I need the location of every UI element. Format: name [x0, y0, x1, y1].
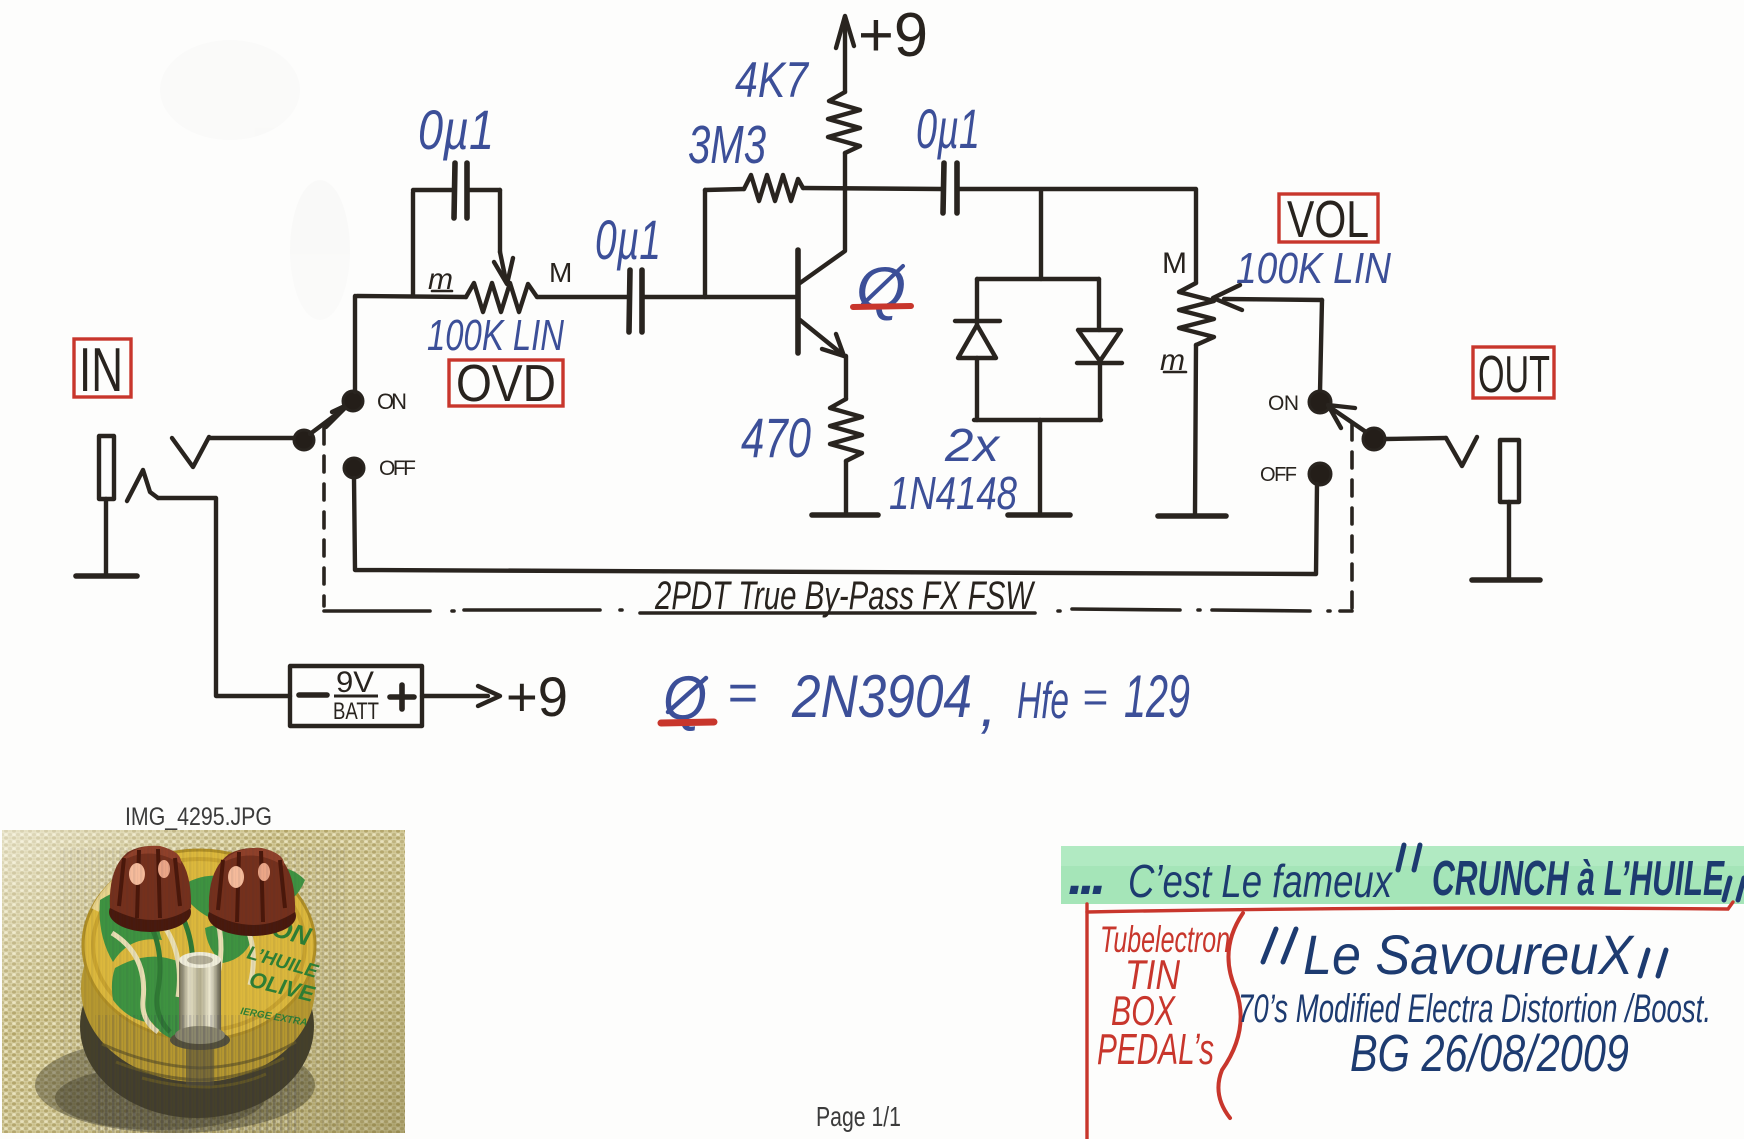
ground (emitter) — [812, 512, 878, 518]
svg-text:M: M — [549, 257, 572, 288]
svg-text:2N3904: 2N3904 — [791, 663, 972, 730]
switch SW1 lever — [310, 407, 346, 434]
footswitch cylinder — [170, 952, 230, 1086]
svg-text:PEDAL’s: PEDAL’s — [1097, 1025, 1214, 1074]
headline ...C'est Le fameux "CRUNCH a L'HUILE" — [1068, 843, 1744, 907]
switch SW1 OFF node — [344, 458, 364, 478]
wire jack to ground — [104, 499, 108, 574]
diode pair bottom wire — [974, 418, 1101, 422]
tin side text scribbles — [102, 1042, 296, 1087]
node junction to diodes — [1039, 191, 1043, 279]
svg-text:129: 129 — [1124, 663, 1190, 730]
knob right — [208, 848, 296, 936]
red brace — [1218, 913, 1243, 1118]
ground (diodes) — [1008, 512, 1070, 518]
bypass wire OFF-OFF — [354, 478, 1317, 574]
mechanical link dashed (OUT) — [1350, 424, 1354, 610]
svg-text:IN: IN — [79, 336, 123, 405]
green highlighter bar — [1061, 846, 1744, 904]
svg-text:3M3: 3M3 — [688, 115, 766, 175]
wire input row to pot — [357, 296, 466, 297]
wire OUT jack to ground — [1507, 502, 1511, 578]
+9 supply arrow — [836, 16, 854, 92]
svg-text:100K LIN: 100K LIN — [1236, 244, 1391, 293]
svg-text:,: , — [980, 672, 997, 739]
svg-text:Page 1/1: Page 1/1 — [816, 1101, 901, 1132]
svg-text:OFF: OFF — [379, 457, 416, 480]
svg-text:BG 26/08/2009: BG 26/08/2009 — [1350, 1025, 1629, 1083]
photo of tin box pedal — [2, 830, 405, 1133]
svg-text:2PDT True By-Pass FX FSW: 2PDT True By-Pass FX FSW — [654, 574, 1035, 618]
svg-text:0µ1: 0µ1 — [418, 98, 494, 161]
svg-text:2x: 2x — [944, 419, 1001, 471]
tin side label band — [81, 894, 315, 1082]
OVD red box — [449, 360, 563, 406]
svg-text:CRUNCH à L’HUILE: CRUNCH à L’HUILE — [1432, 852, 1725, 906]
resistor R2 3M3 — [744, 175, 803, 201]
svg-text:OVD: OVD — [456, 355, 556, 413]
resistor R1 4K7 — [828, 92, 860, 153]
OUT red box — [1473, 347, 1554, 398]
potentiometer VOL element — [1179, 283, 1214, 345]
knob left — [109, 846, 191, 932]
svg-text:470: 470 — [741, 406, 811, 469]
diode D1 1N4148 (cathode up) — [955, 279, 1000, 420]
IN jack sleeve spring — [127, 470, 158, 501]
switch SW2 pivot node — [1363, 428, 1385, 450]
wire ON node up to input row — [353, 296, 357, 392]
svg-text:BATT: BATT — [333, 698, 379, 725]
wire 3M3 left leg down to base — [703, 190, 707, 297]
svg-text:9V: 9V — [336, 666, 374, 699]
svg-text:...: ... — [1068, 843, 1103, 906]
capacitor C1 0u1 (input bypass over OVD pot) — [413, 163, 500, 296]
svg-text:VOL: VOL — [1287, 191, 1369, 249]
wire C2 to base — [644, 295, 797, 299]
switch SW2 OFF node — [1309, 463, 1331, 485]
green artwork on tin — [100, 867, 305, 1040]
svg-text:IMG_4295.JPG: IMG_4295.JPG — [125, 803, 272, 831]
svg-text:+9: +9 — [506, 665, 568, 728]
svg-text:100K LIN: 100K LIN — [427, 311, 564, 360]
green tin lettering — [239, 907, 321, 1029]
label Q (transistor) — [853, 255, 911, 322]
red brand text — [1097, 919, 1230, 1074]
battery B1 9V — [290, 666, 422, 726]
svg-text:=: = — [1082, 673, 1108, 722]
svg-text:Hfe: Hfe — [1017, 672, 1069, 730]
tin lower body dark — [80, 934, 314, 1118]
wire 470 to ground — [844, 461, 848, 512]
label Q = 2N3904 , Hfe = 129 — [661, 663, 1190, 739]
svg-text:C’est Le fameux: C’est Le fameux — [1128, 855, 1394, 907]
IN jack tip contact — [99, 436, 114, 499]
svg-text:0µ1: 0µ1 — [916, 97, 980, 160]
wire pivot to OUT jack — [1385, 438, 1446, 439]
VOL red box — [1279, 194, 1378, 242]
tin shadow — [35, 1037, 315, 1133]
switch SW1 ON node — [343, 391, 363, 411]
IN red box — [74, 339, 131, 397]
svg-text:=: = — [727, 664, 757, 722]
mechanical link dashed (IN) — [322, 428, 326, 606]
ground (VOL) — [1158, 513, 1226, 519]
svg-text:M: M — [1162, 247, 1187, 280]
switch SW2 ON node — [1309, 391, 1331, 413]
diode D2 1N4148 (cathode down) — [1077, 279, 1122, 420]
switch SW1 common node — [294, 430, 314, 450]
resistor R3 470 — [830, 399, 862, 461]
capacitor C2 0u1 (coupling to base) — [629, 270, 642, 332]
wire battery plus arrow — [422, 694, 488, 698]
potentiometer OVD wiper arrow — [500, 252, 506, 281]
svg-text:ON: ON — [377, 389, 407, 414]
wire pot M to C2 — [537, 295, 627, 299]
diode pair top wire — [977, 277, 1099, 281]
capacitor C3 0u1 (output coupling) — [943, 163, 957, 213]
mechanical link dash-dot line — [324, 609, 1352, 613]
svg-text:OFF: OFF — [1260, 464, 1297, 486]
wire tip to switch common — [209, 436, 295, 440]
switch SW2 lever — [1331, 408, 1366, 432]
white ribbon swirls — [112, 903, 253, 1032]
OUT jack tip spring V — [1446, 437, 1477, 466]
IN jack tip spring V — [172, 437, 209, 467]
scan streak artifacts — [60, 848, 345, 1131]
blue title Le SavoureuX — [1263, 923, 1666, 986]
wire top row left — [705, 189, 744, 190]
svg-text:4K7: 4K7 — [735, 52, 810, 108]
wire sleeve to battery minus — [158, 498, 290, 696]
svg-text:0µ1: 0µ1 — [595, 208, 661, 271]
svg-text:+9: +9 — [858, 1, 928, 70]
wire 3M3 to collector node — [803, 188, 941, 189]
svg-text:OUT: OUT — [1478, 346, 1550, 404]
wire C3 to VOL corner — [957, 189, 1196, 283]
svg-text:Le SavoureuX: Le SavoureuX — [1303, 923, 1635, 986]
wire VOL bottom to ground — [1195, 345, 1196, 513]
wire diodes to ground — [1038, 420, 1042, 512]
wire 4K7 to node — [843, 153, 847, 190]
potentiometer OVD 100K LIN element — [466, 283, 537, 312]
svg-text:ON: ON — [1268, 392, 1299, 415]
transistor Q 2N3904 — [798, 190, 846, 399]
ground (OUT jack) — [1472, 577, 1540, 583]
ground (IN jack) — [76, 573, 137, 579]
VOL wiper arrow wire — [1224, 299, 1322, 300]
tin top face — [83, 850, 315, 1040]
svg-text:1N4148: 1N4148 — [889, 467, 1017, 519]
OUT jack tip contact — [1500, 440, 1519, 502]
red frame lines — [1085, 904, 1088, 1139]
